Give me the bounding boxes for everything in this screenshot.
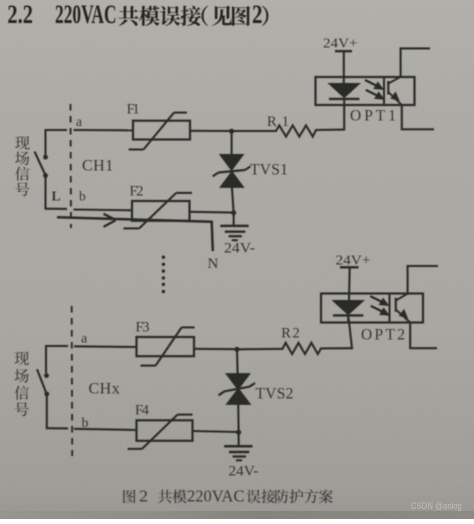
svg-text:2.2: 2.2 bbox=[7, 0, 33, 29]
svg-text:F2: F2 bbox=[130, 184, 144, 200]
svg-text:220VAC: 220VAC bbox=[187, 487, 245, 506]
wire TVS1 to node b bbox=[232, 187, 234, 212]
svg-text:TVS1: TVS1 bbox=[250, 162, 288, 179]
section heading 2.2 220VAC bbox=[7, 0, 116, 29]
wire F3 to node (CHx) bbox=[194, 348, 237, 351]
svg-text:N: N bbox=[208, 256, 219, 272]
wire F4 to TVS2 bottom node bbox=[193, 431, 239, 432]
svg-text:2: 2 bbox=[252, 0, 263, 29]
wire 24V+ to OPT2 LED anode bbox=[348, 267, 351, 300]
wire 24V+ to OPT1 LED anode bbox=[343, 51, 345, 84]
wire a right segment to F3 bbox=[74, 345, 137, 348]
dashed isolation boundary (CHx) bbox=[71, 306, 74, 456]
fuse F4 bbox=[128, 415, 193, 449]
svg-text:OPT2: OPT2 bbox=[361, 327, 405, 344]
svg-text:F3: F3 bbox=[136, 320, 150, 336]
svg-text:TVS2: TVS2 bbox=[256, 386, 294, 403]
svg-text:24V-: 24V- bbox=[229, 464, 259, 480]
resistor R1 bbox=[234, 125, 344, 136]
svg-text:CH1: CH1 bbox=[82, 158, 114, 175]
wire a left segment (CH1) bbox=[45, 129, 68, 131]
OPT1 collector lead bbox=[401, 48, 430, 77]
TVS diode TVS1 bbox=[213, 155, 251, 188]
svg-text:a: a bbox=[76, 114, 82, 129]
svg-text:R2: R2 bbox=[281, 326, 300, 342]
OPT2 emitter lead bbox=[410, 323, 437, 349]
dashed isolation boundary (CH1) bbox=[70, 104, 73, 228]
svg-text:a: a bbox=[81, 332, 88, 347]
wire b left segment (CHx) bbox=[46, 427, 68, 429]
OPT2 collector lead bbox=[408, 266, 438, 294]
wire node a to TVS2 bbox=[236, 349, 239, 374]
wire b right segment to F4 bbox=[74, 429, 137, 430]
optocoupler OPT1 bbox=[316, 77, 415, 105]
section heading CJK 共模误接（见图2） bbox=[119, 0, 269, 29]
svg-text:CSDN @anlog: CSDN @anlog bbox=[411, 501, 462, 512]
fuse F2 bbox=[124, 193, 192, 229]
svg-text:F4: F4 bbox=[135, 403, 150, 419]
svg-text:24V-: 24V- bbox=[224, 241, 255, 257]
switch S1 (CH1 field contact) bbox=[35, 129, 48, 209]
current direction arrow on L wire bbox=[104, 214, 116, 227]
wire node a to TVS1 bbox=[231, 131, 233, 155]
channel ellipsis dots bbox=[162, 256, 165, 294]
svg-text:b: b bbox=[79, 189, 86, 204]
supply 24V+ rail tick (OPT1) bbox=[335, 50, 352, 52]
ground (CH1 24V-) bbox=[220, 213, 248, 241]
TVS diode TVS2 bbox=[219, 374, 256, 405]
resistor R2 bbox=[239, 343, 352, 354]
svg-text:CHx: CHx bbox=[89, 381, 121, 398]
switch S2 (CHx field contact) bbox=[37, 345, 49, 428]
wire R1 to OPT1 LED cathode bbox=[343, 99, 345, 131]
wire b right segment to F2 bbox=[74, 208, 133, 211]
label 现场信号 (CHx) bbox=[15, 352, 29, 417]
wire a left segment (CHx) bbox=[45, 345, 68, 347]
fuse F3 bbox=[137, 327, 195, 365]
supply 24V+ rail tick (OPT2) bbox=[340, 266, 359, 268]
junction node wire a / TVS2 / R2 bbox=[234, 347, 239, 352]
wire b left segment (CH1) bbox=[45, 208, 68, 210]
page bottom edge strip bbox=[0, 511, 474, 519]
optocoupler OPT2 bbox=[321, 294, 423, 323]
wire R2 to OPT2 LED cathode bbox=[349, 318, 353, 349]
junction node wire a / TVS1 / R1 bbox=[229, 129, 234, 134]
svg-text:F1: F1 bbox=[127, 102, 140, 118]
junction node wire b / TVS1 / ground (CH1) bbox=[231, 210, 236, 215]
wire TVS2 to node b bbox=[237, 404, 240, 432]
ground (CHx 24V-) bbox=[224, 432, 252, 460]
fuse F1 bbox=[129, 113, 190, 150]
wire OPT2 LED cathode inner lead bbox=[347, 315, 349, 322]
wire F2 to TVS1 bottom node bbox=[190, 211, 234, 214]
mis-connected 220VAC L wire bbox=[57, 217, 213, 251]
OPT1 emitter lead bbox=[402, 105, 434, 129]
svg-text:24V+: 24V+ bbox=[323, 37, 358, 52]
svg-text:220VAC: 220VAC bbox=[55, 0, 117, 29]
wire a right segment to F1 bbox=[74, 129, 134, 131]
svg-text:L: L bbox=[52, 189, 61, 204]
label 现场信号 (CH1) bbox=[15, 136, 29, 196]
wire F1 to node (CH1) bbox=[190, 130, 232, 132]
figure caption 图2 共模220VAC误接防护方案 bbox=[123, 487, 333, 506]
junction node wire b / TVS2 / ground (CHx) bbox=[236, 430, 241, 435]
svg-text:2: 2 bbox=[139, 487, 148, 506]
